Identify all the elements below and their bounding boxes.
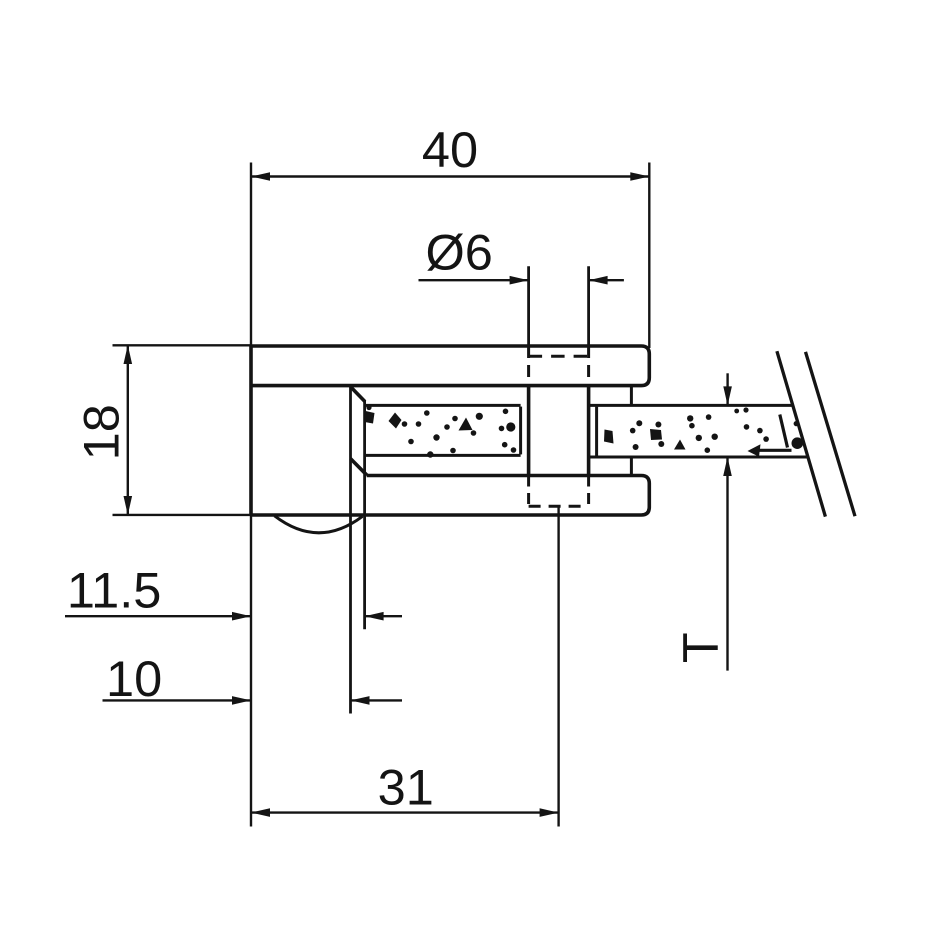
svg-text:18: 18 bbox=[73, 404, 130, 460]
dim D6 left-pointing arrowhead bbox=[589, 276, 608, 285]
dim D6 right-pointing arrowhead bbox=[510, 276, 529, 285]
dim 10 right arrowhead bbox=[351, 696, 370, 705]
dim T upper line bbox=[726, 373, 728, 405]
bolt hidden bottom end bbox=[529, 505, 589, 508]
boss arc bbox=[275, 516, 363, 533]
dim T up arrowhead bbox=[723, 457, 732, 476]
glass edge detail tilted line bbox=[780, 415, 788, 448]
glass bottom edge right segment bbox=[589, 456, 808, 459]
bolt centerline bbox=[557, 506, 559, 826]
dim 11.5 arrowhead bbox=[232, 612, 251, 621]
svg-text:10: 10 bbox=[106, 650, 162, 707]
dim T lower line bbox=[726, 457, 728, 671]
dim 18 bottom arrowhead bbox=[124, 496, 133, 515]
svg-text:31: 31 bbox=[378, 758, 434, 815]
dim 10 line bbox=[103, 699, 252, 701]
dim 40 line bbox=[251, 175, 649, 177]
dim 18 top extension bbox=[113, 344, 252, 346]
dim 31 line bbox=[251, 811, 559, 813]
dim 40 right extension line bbox=[648, 163, 650, 349]
glass bottom edge left segment bbox=[365, 454, 521, 457]
bolt right edge visible bbox=[587, 386, 591, 476]
bolt hidden right edge in top plate bbox=[587, 346, 590, 386]
dim 40 right arrowhead bbox=[630, 172, 649, 181]
bolt hidden right edge in bottom plate bbox=[587, 476, 590, 507]
dim 11.5 right tail bbox=[365, 615, 402, 617]
bolt left extension line bbox=[527, 266, 530, 346]
bottom plate bbox=[251, 476, 649, 516]
glass break line 1 bbox=[777, 351, 826, 516]
svg-text:40: 40 bbox=[422, 121, 478, 178]
dim 18 bottom extension bbox=[113, 514, 252, 516]
glass hole right edge bbox=[595, 407, 598, 456]
svg-text:T: T bbox=[672, 632, 729, 663]
dim D6 left line bbox=[419, 279, 529, 281]
body left edge bbox=[249, 346, 253, 515]
dim 31 left arrowhead bbox=[251, 808, 270, 817]
bolt hidden left edge in top plate bbox=[527, 346, 530, 386]
glass edge detail blob bbox=[792, 437, 804, 449]
glass hole left edge bbox=[519, 407, 522, 455]
dim 10 arrowhead bbox=[232, 696, 251, 705]
dim 10 right tail bbox=[351, 699, 403, 701]
glass edge detail horizontal line bbox=[755, 449, 792, 452]
gasket bottom right edge bbox=[630, 456, 633, 476]
dim D6 right line bbox=[589, 279, 624, 281]
glass top edge left segment bbox=[365, 404, 521, 407]
svg-text:11.5: 11.5 bbox=[67, 562, 162, 619]
glass edge detail tick bbox=[794, 421, 799, 426]
gasket top right edge bbox=[630, 386, 633, 406]
glass top edge right segment bbox=[589, 404, 793, 407]
glass speckles right segment bbox=[604, 430, 614, 444]
dim 18 top arrowhead bbox=[124, 345, 133, 364]
glass left edge line bbox=[363, 400, 366, 629]
dim 40 left arrowhead bbox=[251, 172, 270, 181]
gasket top chamfer bbox=[351, 387, 365, 402]
bolt right extension line bbox=[587, 266, 590, 346]
bolt hidden left edge in bottom plate bbox=[527, 476, 530, 507]
bolt left edge visible bbox=[527, 386, 531, 476]
dim 11.5 right arrowhead bbox=[365, 612, 384, 621]
glass edge detail arrowhead bbox=[748, 444, 761, 457]
dim 11.5 line bbox=[65, 615, 251, 617]
dim 31 right arrowhead bbox=[540, 808, 559, 817]
top plate bbox=[251, 346, 649, 386]
dim 40 left extension line bbox=[250, 163, 252, 827]
dim 18 line bbox=[127, 345, 129, 515]
slot face line bbox=[349, 386, 352, 714]
glass speckles left segment bbox=[364, 411, 375, 424]
dim T down arrowhead bbox=[723, 386, 732, 405]
glass break line 2 bbox=[806, 352, 856, 516]
gasket bottom chamfer bbox=[351, 459, 367, 476]
bolt hidden top end bbox=[529, 355, 589, 358]
svg-text:Ø6: Ø6 bbox=[426, 223, 493, 280]
